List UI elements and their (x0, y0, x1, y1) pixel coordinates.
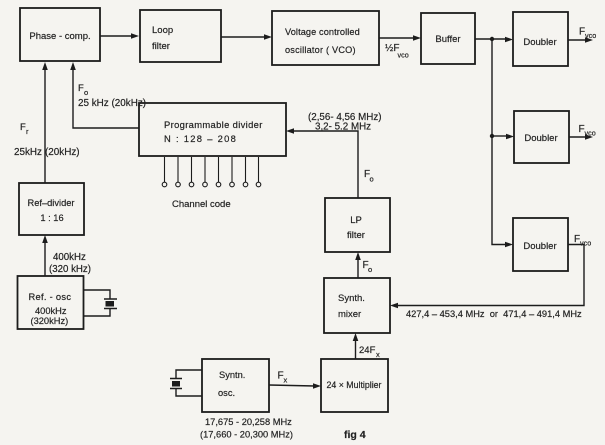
svg-text:Channel code: Channel code (172, 199, 231, 210)
svg-text:osc.: osc. (218, 388, 235, 398)
svg-text:vco: vco (580, 239, 591, 248)
svg-text:25 kHz (20kHz): 25 kHz (20kHz) (78, 98, 146, 109)
svg-text:Doubler: Doubler (523, 241, 556, 252)
label Fvco of U2 (579, 124, 596, 138)
block Synth mixer (324, 278, 390, 333)
svg-text:(320kHz): (320kHz) (31, 316, 69, 326)
svg-text:Synth.: Synth. (338, 293, 365, 304)
wire Synth mixer to LP filter (355, 252, 361, 278)
wire Loop filter to VCO (221, 34, 272, 40)
wire feedback Programmable divider to Phase-comp (70, 62, 139, 128)
wire Doubler U2 output Fvco (569, 134, 593, 140)
svg-text:17,675 - 20,258 MHz: 17,675 - 20,258 MHz (205, 417, 292, 427)
block LP filter (325, 198, 390, 252)
label Fo between mixer and LP filter (363, 260, 373, 274)
svg-text:o: o (370, 175, 374, 184)
label 1/2 Fvco (385, 43, 409, 60)
label 24Fx (359, 345, 380, 359)
svg-text:x: x (284, 376, 288, 385)
block 24x Multiplier (321, 359, 388, 412)
svg-text:Buffer: Buffer (435, 34, 460, 45)
block Doubler U1 (top) (513, 12, 568, 66)
block Doubler U2 (middle) (514, 111, 569, 163)
label Fvco of U3 (574, 234, 591, 248)
block Buffer (421, 13, 475, 64)
svg-text:Ref. - osc: Ref. - osc (29, 292, 72, 302)
svg-text:427,4 – 453,4 MHz or 471,4 –: 427,4 – 453,4 MHz or 471,4 – 491,4 MHz (406, 309, 582, 319)
wire Doubler U3 output to Synth mixer (390, 245, 584, 309)
svg-text:vco: vco (398, 51, 409, 60)
block Loop filter (140, 10, 221, 62)
block Ref-divider (19, 183, 84, 235)
block Phase-comp (20, 8, 100, 61)
svg-text:24 × Multiplier: 24 × Multiplier (326, 380, 381, 390)
wire LP filter up to Programmable divider (286, 128, 358, 198)
svg-text:fig 4: fig 4 (344, 429, 366, 441)
block VCO (272, 11, 379, 65)
block Ref-osc (18, 276, 84, 329)
svg-text:25kHz: 25kHz (14, 147, 42, 158)
svg-text:Voltage controlled: Voltage controlled (285, 27, 360, 37)
crystal X1 of Ref-osc (83, 290, 117, 316)
block Programmable divider (139, 103, 286, 156)
wire Synth osc to 24x Multiplier (269, 383, 321, 389)
svg-text:Doubler: Doubler (523, 37, 556, 48)
svg-text:(320 kHz): (320 kHz) (49, 264, 91, 275)
svg-text:vco: vco (585, 31, 596, 40)
svg-text:24F: 24F (359, 345, 376, 356)
svg-text:o: o (368, 265, 372, 274)
junction at Doubler U2 branch (490, 134, 494, 138)
svg-text:Phase - comp.: Phase - comp. (29, 31, 90, 42)
label Fo feedback (78, 83, 88, 97)
wire VCO to Buffer (379, 35, 421, 41)
svg-text:N : 128 – 208: N : 128 – 208 (164, 133, 237, 144)
svg-text:oscillator ( VCO): oscillator ( VCO) (285, 45, 356, 55)
label Fx (278, 371, 288, 385)
wire Ref-divider to Phase-comp Fr (42, 62, 48, 183)
wire Buffer to Doubler U1 (475, 37, 513, 43)
wire Ref-osc to Ref-divider (42, 235, 48, 276)
svg-text:vco: vco (585, 129, 596, 138)
svg-text:(20kHz): (20kHz) (45, 147, 80, 158)
svg-text:1 : 16: 1 : 16 (40, 213, 63, 223)
label Fvco of U1 (579, 27, 596, 41)
wire junction down to Doubler U3 (492, 136, 513, 247)
svg-text:Doubler: Doubler (524, 133, 557, 144)
wire junction to Doubler U2 (492, 134, 514, 140)
svg-text:Syntn.: Syntn. (219, 370, 245, 380)
svg-text:(17,660 - 20,300 MHz): (17,660 - 20,300 MHz) (200, 430, 293, 440)
block Doubler U3 (bottom) (513, 218, 568, 271)
label Fo above LP filter (364, 169, 374, 184)
svg-text:LP: LP (350, 215, 362, 226)
channel code pins (8 lines with circles) (162, 157, 261, 187)
wire junction down to Doubler U2 junction (491, 39, 493, 136)
svg-text:Programmable divider: Programmable divider (164, 119, 263, 130)
wire Doubler U1 output Fvco (568, 37, 593, 43)
block Synth osc (202, 359, 269, 412)
crystal X2 of Synth osc (170, 370, 202, 396)
svg-text:Loop: Loop (152, 25, 173, 36)
svg-text:mixer: mixer (338, 309, 361, 320)
svg-text:o: o (84, 88, 88, 97)
svg-text:400kHz: 400kHz (53, 252, 86, 263)
wire 24x Multiplier to Synth mixer (353, 333, 359, 359)
svg-text:3,2- 5.2 MHz: 3,2- 5.2 MHz (315, 122, 371, 133)
svg-text:filter: filter (347, 230, 365, 241)
junction at buffer output (490, 37, 494, 41)
svg-text:Ref–divider: Ref–divider (27, 198, 74, 208)
label Fr (20, 122, 29, 136)
svg-text:400kHz: 400kHz (35, 306, 67, 316)
svg-text:filter: filter (152, 41, 170, 52)
wire Phase-comp to Loop filter (100, 33, 139, 39)
svg-text:x: x (376, 350, 380, 359)
